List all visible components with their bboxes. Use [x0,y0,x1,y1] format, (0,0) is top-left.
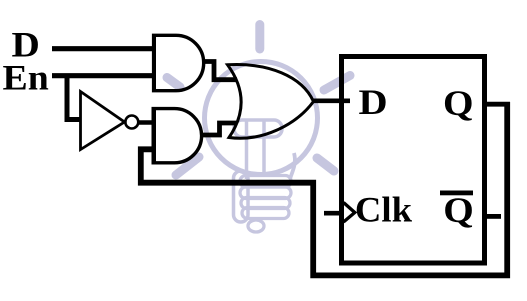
svg-text:Q: Q [443,190,474,230]
svg-text:Clk: Clk [355,190,413,230]
svg-text:En: En [3,57,49,97]
svg-text:Q: Q [443,83,474,123]
svg-text:D: D [359,83,388,123]
